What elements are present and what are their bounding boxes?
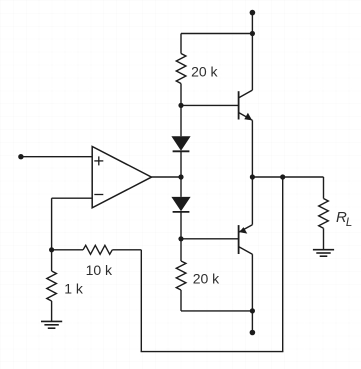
node PNP base [178,236,183,241]
svg-text:20 k: 20 k [191,64,218,80]
top supply terminal [250,10,256,16]
wire NPN base [181,104,239,106]
resistor R3 10 k [52,245,142,254]
svg-text:1 k: 1 k [64,281,84,297]
transistor Q2 (PNP) [239,177,253,254]
wire bottom horizontal to rail [181,310,252,312]
node op-amp output / diode midpoint [178,174,183,179]
diode D1 [171,105,190,177]
transistor Q1 (NPN) [239,90,253,120]
wire feedback bottom [141,351,284,353]
node feedback/divider junction [49,247,54,252]
svg-text:L: L [346,217,352,229]
ground (1 k) [41,321,62,328]
wire left vertical [51,198,53,250]
wire PNP collector to bottom junction [251,254,253,311]
wire top rail vertical [251,13,253,91]
wire - input left [52,197,93,199]
op-amp U1 [92,147,151,208]
wire feedback middle vertical [140,250,142,352]
node output at rail [250,174,255,179]
wire NPN emitter to output node [251,120,253,177]
diode D2 [171,177,190,239]
wire op-amp output to diode node [152,176,182,178]
ground (RL) [313,250,334,257]
wire PNP base [181,238,239,240]
resistor R2 20 k (bottom) [176,239,186,311]
svg-text:20 k: 20 k [193,271,220,287]
bottom supply terminal [250,330,256,336]
wire input to op-amp + [21,156,92,158]
wire top horizontal [181,33,252,35]
node bottom rail junction [250,308,255,313]
node NPN base [178,103,183,108]
wire output row [252,176,323,178]
resistor R1 20 k (top) [176,34,186,106]
resistor RL [319,177,329,250]
node top rail junction [250,31,255,36]
input terminal dot [18,154,23,159]
wire feedback vertical right [282,177,284,352]
wire bottom rail stub [251,311,253,333]
svg-text:10 k: 10 k [86,262,113,278]
node feedback tap [280,174,285,179]
resistor R4 1 k [47,250,57,322]
